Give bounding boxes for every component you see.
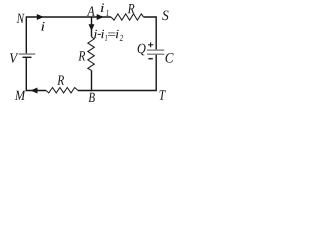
node A label xyxy=(87,6,95,15)
current label i-i1=i2 xyxy=(94,30,123,41)
node N label xyxy=(17,14,25,23)
wire: node N corner, left side down to battery, and top wire N to resistor xyxy=(26,17,111,53)
current arrow i2 (downward on middle branch) xyxy=(89,24,95,31)
resistor R (top, zigzag) xyxy=(111,14,144,20)
wire: top resistor to corner S, right side down to capacitor xyxy=(144,17,157,50)
current label i xyxy=(41,22,44,31)
wire: bottom resistor to corner M, left side up to battery xyxy=(26,58,46,90)
node M label xyxy=(15,91,26,100)
node T label xyxy=(160,90,166,99)
wire: middle branch from node A down to resistor xyxy=(91,17,93,37)
resistor R (middle, vertical zigzag) xyxy=(88,37,95,71)
node S label xyxy=(162,11,168,21)
capacitor label C xyxy=(166,53,174,63)
battery V plates (long positive, short negative) xyxy=(19,54,35,57)
resistor R (bottom, zigzag) xyxy=(46,88,78,93)
capacitor charge label Q xyxy=(138,44,146,56)
plus sign at capacitor top plate xyxy=(148,42,153,47)
resistor label R (bottom) xyxy=(57,76,64,85)
current arrow i (rightward on top wire) xyxy=(37,14,44,20)
wire: capacitor down to corner T and bottom wire T to B xyxy=(78,55,156,91)
wire: middle resistor to node B xyxy=(91,70,93,91)
current arrow i1 (rightward after node A) xyxy=(97,14,104,20)
current label i1 xyxy=(101,3,109,15)
resistor label R (middle) xyxy=(78,51,85,60)
node B label xyxy=(89,93,95,102)
current arrow at M (leftward on bottom wire) xyxy=(31,88,38,94)
battery label V xyxy=(10,53,18,63)
capacitor C plates xyxy=(147,50,164,54)
resistor label R (top) xyxy=(128,4,135,13)
minus sign at capacitor bottom plate xyxy=(148,58,152,60)
